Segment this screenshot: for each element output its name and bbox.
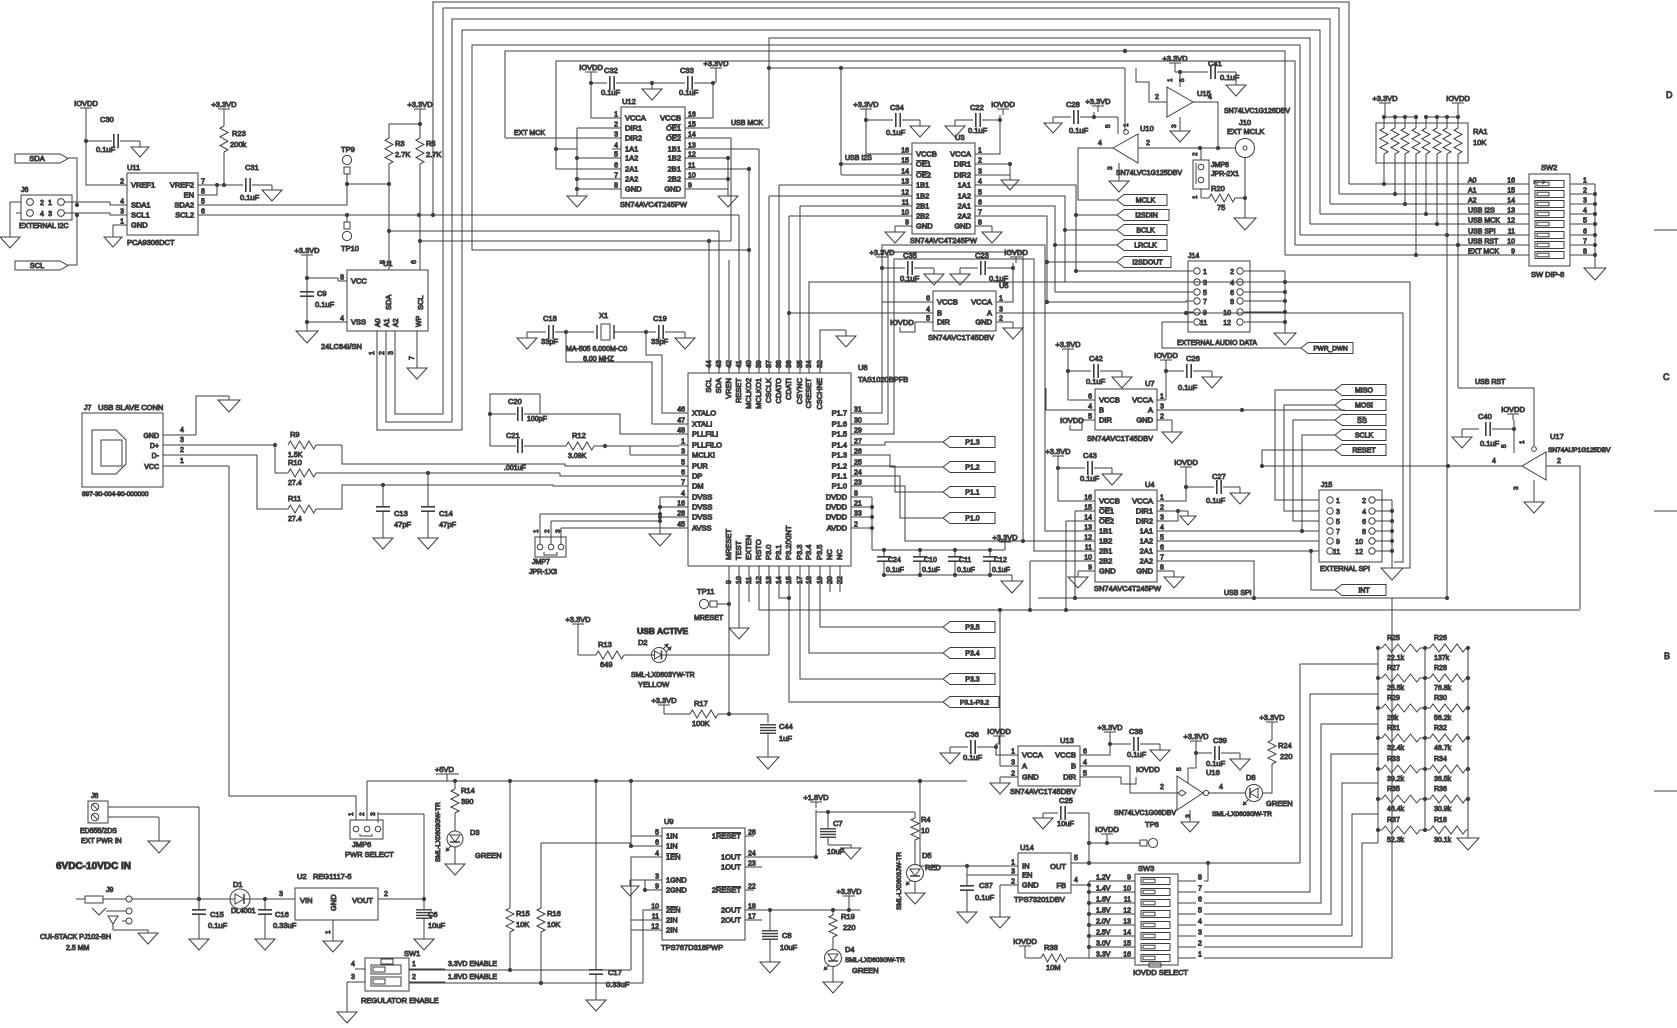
svg-text:2B1: 2B1 — [1099, 547, 1112, 556]
svg-text:C11: C11 — [959, 557, 971, 564]
svg-text:12: 12 — [651, 924, 659, 931]
svg-text:+3.3VD: +3.3VD — [869, 248, 895, 257]
svg-text:11: 11 — [1333, 549, 1340, 556]
svg-text:1B1: 1B1 — [916, 181, 929, 190]
svg-text:USB MCK: USB MCK — [1468, 218, 1500, 225]
svg-text:25.5k: 25.5k — [1387, 685, 1405, 692]
svg-text:9: 9 — [688, 183, 692, 190]
svg-text:1: 1 — [999, 296, 1003, 303]
wire R3 column to U1 SDA — [388, 231, 390, 270]
svg-text:+3.3VD: +3.3VD — [853, 100, 879, 109]
svg-text:0.1uF: 0.1uF — [1069, 126, 1089, 135]
wire BCLK — [1063, 228, 1117, 232]
IC U12 SN74AVC4T245PW — [612, 97, 696, 209]
svg-text:EXTERNAL I2C: EXTERNAL I2C — [19, 223, 69, 230]
wire P3.1 P3.2 to flag — [779, 566, 943, 702]
svg-text:0.33uF: 0.33uF — [606, 980, 630, 989]
svg-text:2.5V: 2.5V — [1096, 930, 1111, 937]
svg-text:0.1uF: 0.1uF — [922, 567, 940, 574]
svg-text:0.1uF: 0.1uF — [601, 88, 621, 97]
connector J10 EXT MCLK — [1227, 118, 1264, 158]
wire U3 left pins — [769, 164, 903, 373]
svg-text:0.1uF: 0.1uF — [679, 88, 699, 97]
wire MOSI to J15 — [1284, 405, 1335, 511]
svg-text:TAS1020BPFB: TAS1020BPFB — [858, 375, 908, 384]
svg-text:15: 15 — [901, 158, 909, 165]
node P1.3 flag — [943, 437, 995, 448]
svg-text:GREEN: GREEN — [852, 966, 879, 975]
svg-text:SN74LVC1G126DBV: SN74LVC1G126DBV — [1224, 108, 1290, 115]
ground J10 — [1234, 218, 1256, 230]
svg-text:P1.2: P1.2 — [965, 465, 980, 472]
ground U3 DIR — [1001, 180, 1019, 190]
wire U3 1A1 2A1 right — [984, 185, 1076, 262]
ground C27 — [1230, 493, 1250, 504]
svg-text:0.1uF: 0.1uF — [992, 567, 1010, 574]
connector J15 EXTERNAL SPI — [1319, 482, 1382, 573]
svg-text:DIR2: DIR2 — [1136, 517, 1153, 526]
node USB I2S label — [845, 155, 872, 162]
svg-text:4: 4 — [120, 199, 124, 206]
svg-text:DIR: DIR — [1099, 416, 1113, 425]
svg-text:3: 3 — [1513, 486, 1520, 490]
svg-text:B: B — [937, 309, 942, 318]
wire SDA bus to U8 — [387, 184, 719, 233]
svg-text:IOVDD: IOVDD — [1013, 937, 1037, 946]
svg-text:13: 13 — [1507, 208, 1515, 215]
svg-text:IOVDD: IOVDD — [74, 99, 98, 108]
svg-text:14: 14 — [1084, 515, 1092, 522]
svg-text:13: 13 — [901, 179, 909, 186]
svg-text:+3.3VD: +3.3VD — [1045, 447, 1071, 456]
svg-text:0.1uF: 0.1uF — [900, 274, 920, 283]
power +3.3VD at R3 R5 — [407, 100, 433, 115]
capacitor C26 0.1uF — [1164, 354, 1212, 392]
svg-text:8: 8 — [614, 183, 618, 190]
node USB ACTIVE label — [637, 626, 688, 636]
wire U15 power pin5 — [1178, 70, 1182, 87]
svg-text:VOUT: VOUT — [352, 896, 373, 905]
power IOVDD at U7 DIR — [1060, 416, 1086, 430]
wire C43 to U4 VCCB — [1058, 468, 1086, 501]
svg-text:4: 4 — [1208, 94, 1212, 101]
ground C28 — [1044, 123, 1062, 133]
svg-text:16: 16 — [688, 112, 696, 119]
sheet zone letter B — [1664, 651, 1670, 661]
svg-text:IOVDD: IOVDD — [987, 727, 1011, 736]
testpoint TP10 — [341, 222, 359, 253]
svg-text:C32: C32 — [604, 66, 618, 75]
svg-text:10uF: 10uF — [1057, 819, 1075, 828]
svg-text:DVDD: DVDD — [826, 513, 848, 522]
node P3.1-P3.2 flag — [943, 697, 999, 708]
resistor R33 39.2k — [1378, 756, 1427, 783]
wire D4 to ground — [832, 966, 834, 982]
wire USB I2S to U3 OE1 — [839, 66, 903, 166]
svg-text:AVSS: AVSS — [692, 524, 711, 533]
svg-text:+5VD: +5VD — [435, 765, 455, 774]
svg-text:USB RST: USB RST — [1475, 379, 1506, 386]
wire U2 VOUT to C6 JMP6 — [378, 823, 426, 901]
svg-text:1: 1 — [180, 458, 184, 465]
wire top bus line 8 MCLKO2 to bus — [472, 45, 1300, 252]
ground C19 — [675, 338, 695, 349]
svg-text:P1.7: P1.7 — [832, 409, 847, 418]
wire U8 SDA pin up — [718, 231, 720, 373]
wire SW1 pins — [347, 961, 445, 982]
wire U8 VREN pin — [728, 260, 730, 373]
svg-text:VCC: VCC — [144, 464, 159, 471]
node P3.4 flag — [943, 648, 995, 659]
power +3.3VD at U15 — [1162, 54, 1188, 69]
svg-text:2A2: 2A2 — [625, 175, 638, 184]
resistor R35 46.4k — [1378, 786, 1427, 813]
svg-text:R24: R24 — [1278, 741, 1292, 750]
svg-text:IOVDD SELECT: IOVDD SELECT — [1133, 968, 1188, 977]
svg-text:47pF: 47pF — [439, 520, 457, 529]
svg-text:RESET: RESET — [734, 378, 743, 403]
svg-text:PUR: PUR — [692, 462, 708, 471]
capacitor C35 0.1uF — [880, 251, 934, 283]
svg-text:DVDD: DVDD — [826, 503, 848, 512]
svg-text:8: 8 — [978, 220, 982, 227]
svg-text:28: 28 — [748, 830, 756, 837]
wire MCLK — [1078, 148, 1117, 200]
wire C20 to PLLFILI — [540, 394, 679, 434]
ground U3 right — [982, 232, 1002, 243]
svg-text:U3: U3 — [955, 133, 965, 142]
wire J8 pin2 to ground — [108, 817, 159, 841]
svg-text:3: 3 — [1011, 760, 1015, 767]
power IOVDD at U5 DIR — [890, 318, 924, 332]
svg-text:5: 5 — [1501, 444, 1508, 448]
wire U8 DVDD pins to rail — [860, 497, 874, 550]
svg-text:P3.5: P3.5 — [965, 625, 980, 632]
svg-text:BCLK: BCLK — [1136, 228, 1155, 235]
svg-text:P3.5: P3.5 — [815, 545, 824, 560]
svg-text:J8: J8 — [91, 793, 99, 800]
svg-text:0.1uF: 0.1uF — [975, 893, 995, 902]
svg-text:1.8V: 1.8V — [1096, 908, 1111, 915]
svg-text:SN74LVC1G125DBV: SN74LVC1G125DBV — [1116, 170, 1182, 177]
svg-text:SN74AVC1T45DBV: SN74AVC1T45DBV — [928, 333, 994, 342]
svg-text:DIR: DIR — [937, 318, 951, 327]
power IOVDD at R38 — [1013, 937, 1037, 952]
power IOVDD at TP6 — [1095, 825, 1119, 840]
svg-text:+3.3VD: +3.3VD — [211, 100, 237, 109]
wire U4 right pins to J15 — [1166, 529, 1319, 600]
wire +5VD to U14 IN — [918, 779, 1009, 866]
svg-text:8: 8 — [854, 491, 858, 498]
svg-text:27.4: 27.4 — [288, 480, 302, 487]
svg-text:48: 48 — [677, 428, 685, 435]
svg-text:13: 13 — [688, 143, 696, 150]
wire U8 SCL pin up — [708, 241, 710, 373]
wire U7 VCCA to IOVDD — [1165, 399, 1167, 401]
connector J8 ED555/2DS EXT PWR IN — [80, 793, 122, 845]
ground C43 — [1102, 474, 1122, 485]
resistor R5 2.7K — [416, 138, 441, 215]
svg-text:VCCA: VCCA — [950, 150, 971, 159]
wire U16 output to D8 — [1209, 792, 1245, 794]
svg-text:10K: 10K — [547, 920, 560, 929]
resistor R27 25.5k — [1378, 665, 1427, 692]
svg-text:13: 13 — [1123, 919, 1131, 926]
svg-text:46.4k: 46.4k — [1387, 806, 1405, 813]
svg-text:1: 1 — [348, 812, 355, 816]
capacitor C24 0.1uF — [877, 550, 904, 575]
svg-text:VCCB: VCCB — [1099, 396, 1120, 405]
wire 3.3VD ENABLE — [409, 857, 653, 970]
svg-text:C33: C33 — [680, 66, 694, 75]
buffer U15 SN74LVC1G126DBV — [1155, 78, 1290, 128]
node SCL flag — [15, 261, 68, 270]
ground C32 C33 — [642, 83, 662, 100]
power IOVDD at C30 — [74, 99, 98, 114]
ground U11 GND — [104, 225, 122, 247]
power +3.3VD at R24 — [1259, 713, 1285, 728]
svg-text:22.1k: 22.1k — [1387, 655, 1405, 662]
testpoint TP9 — [341, 145, 355, 184]
svg-text:2: 2 — [1160, 505, 1164, 512]
wire U3 DIR1 DIR2 tie — [984, 162, 1012, 180]
capacitor C34 0.1uF — [864, 103, 920, 137]
svg-text:U17: U17 — [1550, 432, 1564, 441]
svg-text:3: 3 — [1203, 280, 1207, 287]
svg-text:GND: GND — [1136, 416, 1153, 425]
svg-text:IOVDD: IOVDD — [890, 318, 914, 327]
ground U8 DVSS — [649, 534, 671, 546]
wire IOVDD to U17 pin5 — [1501, 429, 1514, 453]
ground U1 WP — [407, 368, 427, 379]
capacitor C27 0.1uF — [1184, 472, 1240, 505]
svg-text:SML-LX0603JW-TR: SML-LX0603JW-TR — [896, 852, 903, 910]
svg-text:MOSI: MOSI — [1355, 403, 1373, 410]
wire SDA2 to TP9 and R3 — [207, 182, 391, 205]
svg-text:1: 1 — [1198, 952, 1202, 959]
wire U10 output to MCLK — [1078, 147, 1113, 149]
resistor R4 10 — [911, 812, 931, 864]
svg-text:A0: A0 — [375, 318, 382, 327]
svg-text:C23: C23 — [975, 251, 989, 260]
power +3.3VD at C39 — [1183, 732, 1209, 747]
svg-text:1: 1 — [120, 219, 124, 226]
svg-text:PLLFILO: PLLFILO — [692, 441, 722, 450]
wire RA1 col7 down to USB SPI region — [1446, 235, 1448, 597]
svg-text:1A2: 1A2 — [625, 154, 638, 163]
svg-text:DVDD: DVDD — [826, 493, 848, 502]
svg-text:GND: GND — [975, 318, 992, 327]
svg-text:16: 16 — [1084, 495, 1092, 502]
svg-text:FB: FB — [1056, 881, 1066, 890]
wire J6 pin3 to SCL1 — [64, 213, 127, 217]
ground U5 — [1003, 328, 1023, 339]
svg-text:5: 5 — [1088, 414, 1092, 421]
svg-text:2.7K: 2.7K — [395, 150, 410, 159]
svg-text:P1.1: P1.1 — [832, 472, 847, 481]
svg-text:28: 28 — [677, 511, 685, 518]
svg-text:2: 2 — [384, 891, 388, 898]
power IOVDD at C23 — [1004, 248, 1028, 263]
svg-text:5: 5 — [1198, 908, 1202, 915]
svg-text:C37: C37 — [979, 881, 993, 890]
ground U10 — [1109, 163, 1129, 192]
wire ladder middle column — [1424, 648, 1426, 830]
ground TEST — [729, 628, 749, 639]
ground U14 — [990, 917, 1010, 928]
wire VIN rail — [132, 897, 230, 901]
wire U7 B stub — [1046, 388, 1086, 410]
ground C23 — [950, 274, 970, 285]
wire 1.8VD ENABLE — [409, 910, 653, 983]
svg-text:5: 5 — [1336, 519, 1340, 526]
svg-text:1: 1 — [1192, 195, 1199, 199]
svg-text:1IN: 1IN — [666, 842, 678, 851]
svg-text:B: B — [1664, 651, 1670, 661]
svg-text:4: 4 — [1492, 458, 1496, 465]
svg-text:2.5 MM: 2.5 MM — [66, 945, 90, 952]
svg-text:8: 8 — [1198, 875, 1202, 882]
wire U7 A long — [1166, 408, 1345, 412]
wire C39 to U16 pin5 — [1176, 753, 1196, 783]
svg-text:R11: R11 — [288, 494, 301, 503]
svg-text:2.7K: 2.7K — [426, 150, 441, 159]
svg-text:A2: A2 — [1468, 198, 1477, 205]
ground C17 — [586, 1000, 606, 1011]
ground D3 — [445, 864, 465, 875]
ground U17 — [1524, 480, 1544, 513]
ground D5 — [905, 893, 925, 904]
svg-text:4: 4 — [1230, 280, 1234, 287]
svg-text:DIR1: DIR1 — [954, 160, 971, 169]
svg-text:EXTERNAL AUDIO DATA: EXTERNAL AUDIO DATA — [1177, 340, 1257, 347]
svg-text:2: 2 — [1146, 140, 1150, 147]
svg-text:SW2: SW2 — [1541, 163, 1557, 172]
svg-text:RSTO: RSTO — [754, 539, 763, 560]
svg-text:7: 7 — [1336, 529, 1340, 536]
svg-text:A1: A1 — [1468, 188, 1477, 195]
svg-text:1B1: 1B1 — [1099, 527, 1112, 536]
buffer U10 SN74LVC1G125DBV — [1098, 124, 1182, 177]
svg-text:+3.3VD: +3.3VD — [1259, 713, 1285, 722]
wire U15 input — [1136, 68, 1167, 102]
wire RESET to J15 — [1260, 450, 1335, 468]
svg-text:GND: GND — [143, 433, 159, 440]
svg-text:P1.0: P1.0 — [965, 516, 980, 523]
svg-text:IOVDD: IOVDD — [1446, 94, 1470, 103]
svg-text:TPS73201DBV: TPS73201DBV — [1014, 895, 1065, 904]
svg-text:GND: GND — [1136, 567, 1153, 576]
svg-text:3.09K: 3.09K — [568, 453, 587, 460]
svg-text:YELLOW: YELLOW — [638, 680, 670, 689]
svg-text:12: 12 — [1355, 549, 1363, 556]
power IOVDD at C27 — [1174, 458, 1198, 473]
svg-text:25: 25 — [854, 460, 862, 467]
wire NC stubs — [830, 566, 840, 592]
svg-text:U10: U10 — [1140, 124, 1154, 133]
svg-text:7: 7 — [681, 480, 685, 487]
svg-text:8: 8 — [1230, 299, 1234, 306]
svg-text:C28: C28 — [1066, 100, 1080, 109]
wire C9 to U1 VSS and ground — [305, 320, 347, 331]
svg-text:2GND: 2GND — [666, 886, 687, 895]
wire U10 input to J10 — [1138, 146, 1236, 150]
wire USB RST — [1456, 243, 1534, 446]
svg-text:+3.3VD: +3.3VD — [407, 100, 433, 109]
capacitor C22 0.1uF — [955, 103, 1002, 135]
svg-text:47: 47 — [677, 418, 685, 425]
svg-text:2: 2 — [1160, 784, 1164, 791]
wire R16 top — [541, 843, 653, 846]
svg-text:7: 7 — [1583, 239, 1587, 246]
wire SDA flag to U11 — [68, 158, 77, 205]
svg-text:DL4001: DL4001 — [231, 908, 256, 915]
svg-text:3: 3 — [655, 874, 659, 881]
resistor R38 10M — [1025, 943, 1089, 972]
svg-text:5: 5 — [1105, 124, 1112, 128]
svg-text:R34: R34 — [1434, 756, 1447, 763]
wire J15 pin11 to INT flag — [1311, 551, 1335, 590]
svg-text:100pF: 100pF — [527, 416, 547, 423]
power +3.3VD at C35 — [869, 248, 895, 263]
node MISO flag — [1335, 385, 1386, 396]
svg-text:GREEN: GREEN — [475, 851, 502, 860]
svg-text:R31: R31 — [1387, 725, 1400, 732]
wire P3.5 to flag — [820, 566, 943, 627]
svg-text:REG1117-5: REG1117-5 — [313, 872, 352, 881]
svg-text:9: 9 — [905, 220, 909, 227]
wire J7 GND to ground — [163, 396, 229, 435]
wire JMP6 pin3 down — [377, 812, 379, 823]
svg-text:R14: R14 — [461, 786, 475, 795]
svg-text:DVSS: DVSS — [692, 513, 712, 522]
svg-text:1: 1 — [1011, 749, 1015, 756]
svg-text:P3.4: P3.4 — [804, 545, 813, 560]
jumper JMP8 JPR-2X1 — [1192, 152, 1239, 199]
ground U13 — [990, 783, 1010, 794]
svg-text:1GND: 1GND — [666, 876, 687, 885]
svg-text:6: 6 — [1230, 290, 1234, 297]
svg-text:P3.1: P3.1 — [774, 545, 783, 560]
svg-text:2: 2 — [1198, 941, 1202, 948]
svg-text:2: 2 — [1011, 771, 1015, 778]
svg-text:C12: C12 — [994, 557, 1007, 564]
svg-text:1A1: 1A1 — [625, 145, 638, 154]
wire I2SDIN — [1074, 213, 1117, 217]
svg-text:C22: C22 — [970, 103, 984, 112]
svg-text:649: 649 — [600, 660, 613, 669]
node RESET flag — [1335, 445, 1386, 456]
wire MRESET vertical — [728, 566, 730, 604]
capacitor C19 33pF — [646, 314, 685, 346]
svg-text:23: 23 — [748, 861, 756, 868]
wire U4 left pins bundle — [1030, 511, 1086, 610]
svg-text:CSCLK: CSCLK — [764, 378, 773, 403]
wire J10 shield down — [1243, 157, 1247, 218]
svg-text:14: 14 — [1123, 930, 1131, 937]
wire U14 FB to SW3 common — [1080, 881, 1091, 958]
svg-text:IOVDD: IOVDD — [991, 100, 1015, 109]
svg-text:2: 2 — [359, 812, 366, 816]
ground J7 — [218, 400, 240, 412]
resistor R14 390 — [451, 781, 475, 831]
svg-text:C35: C35 — [903, 251, 917, 260]
svg-text:0.1uF: 0.1uF — [240, 193, 260, 202]
wire U8 CDATO pin — [1045, 300, 1049, 304]
svg-text:SCLK: SCLK — [1355, 433, 1374, 440]
svg-text:USB SLAVE CONN: USB SLAVE CONN — [98, 403, 163, 412]
wire +3.3VD to R3 R5 — [389, 115, 422, 138]
